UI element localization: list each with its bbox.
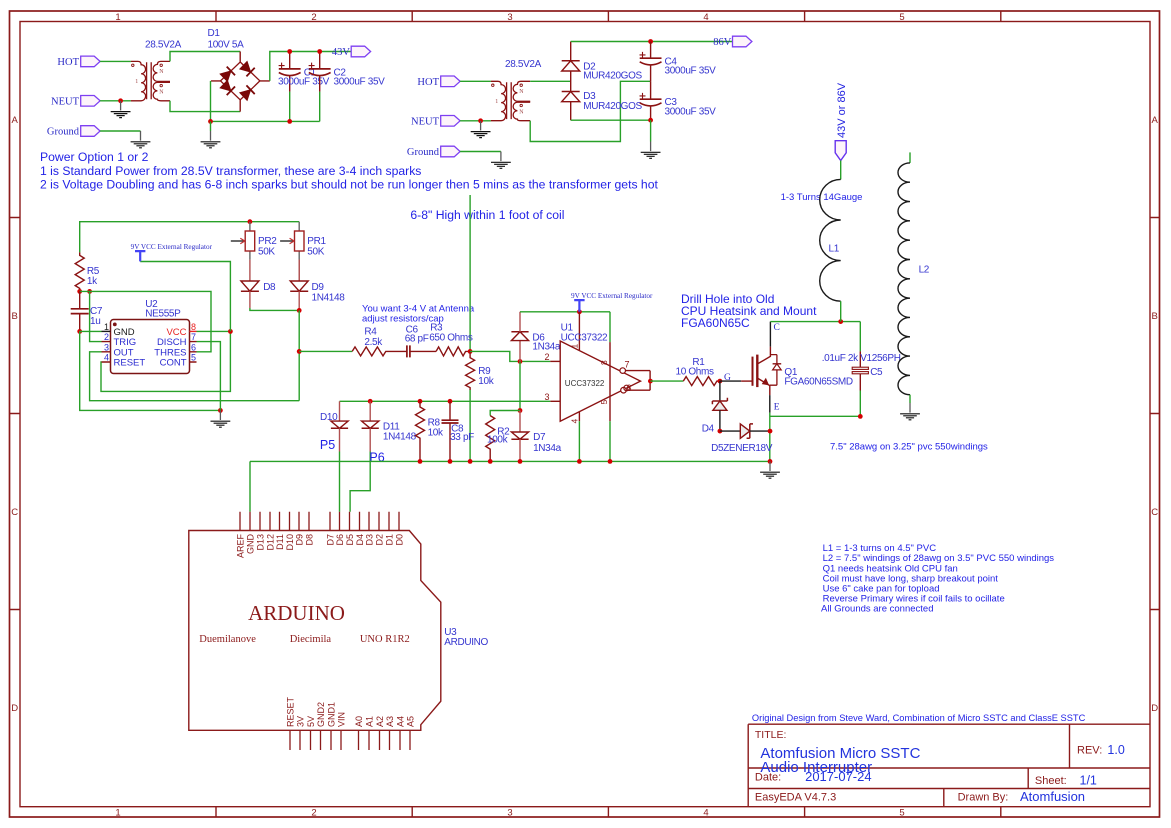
U1 rotated pin numbers [570, 344, 610, 424]
resistor R2 [486, 416, 495, 462]
wire P6 to arduino D5 [350, 452, 370, 512]
wire bridge + output to 43V [270, 52, 351, 81]
svg-text:A2: A2 [375, 716, 385, 727]
resistor R9 [466, 351, 475, 390]
node 555 ground [218, 408, 223, 413]
node C8 top [448, 399, 453, 404]
U3 bottom pin labels [285, 696, 415, 727]
node NEUT2 junction [478, 118, 483, 123]
node C7 bottom / GND pin [77, 329, 82, 334]
node G [718, 379, 723, 384]
svg-text:1N34a: 1N34a [533, 443, 562, 454]
svg-text:D9: D9 [312, 282, 325, 293]
U1 pin8/5 line [609, 312, 611, 342]
svg-text:4: 4 [703, 12, 708, 23]
wire L2 bottom [909, 395, 911, 403]
svg-text:3: 3 [507, 808, 512, 819]
node R2/D7 [518, 408, 523, 413]
resistor R1 [683, 377, 720, 386]
title block lines [748, 724, 1150, 807]
svg-text:A4: A4 [395, 716, 405, 727]
wire HOT to transformer primary [100, 60, 131, 62]
port 86V [713, 36, 752, 48]
wire bus to arduino GND [249, 461, 251, 511]
inductor L1 [820, 179, 841, 301]
node bus R2 [488, 459, 493, 464]
capacitor C7 [71, 291, 89, 331]
wire D8 bottom [249, 291, 251, 308]
svg-text:D1: D1 [384, 534, 394, 546]
svg-text:D5ZENER18V: D5ZENER18V [711, 443, 773, 454]
frame bottom ruler ticks [216, 807, 1001, 817]
wire bottom bus 2 [571, 119, 651, 121]
svg-text:D12: D12 [265, 534, 275, 551]
IC U2 NE555P box [111, 320, 190, 374]
wire collector to rail [769, 322, 771, 347]
svg-text:2: 2 [311, 12, 316, 23]
ground (below Ground port 1) [131, 131, 151, 148]
svg-text:4: 4 [104, 353, 109, 363]
svg-text:100k: 100k [487, 435, 509, 446]
svg-text:6: 6 [627, 383, 632, 393]
node D4 bottom [718, 429, 723, 434]
svg-text:1: 1 [115, 12, 120, 23]
diode D10 [331, 401, 348, 451]
wire DISCH to ground [197, 342, 221, 411]
svg-text:P5: P5 [320, 438, 335, 452]
frame row letters right [1151, 115, 1158, 714]
svg-text:1N4148: 1N4148 [312, 292, 346, 303]
capacitor C3 [640, 81, 662, 120]
transformer T2 polarity dots [492, 84, 494, 86]
svg-text:PR1: PR1 [307, 236, 326, 247]
svg-text:3: 3 [544, 392, 549, 402]
U1 pin2 stub [550, 360, 560, 362]
node R5 bottom [77, 289, 82, 294]
svg-text:GND2: GND2 [316, 702, 326, 727]
ground (NEUT 2) [471, 121, 491, 138]
U2 pin lines right [190, 330, 197, 332]
svg-text:3: 3 [507, 12, 512, 23]
svg-text:D4: D4 [355, 534, 365, 546]
svg-text:9V VCC External Regulator: 9V VCC External Regulator [131, 243, 213, 251]
wire D9/D8 node down to R4 node [298, 310, 300, 400]
ground (below Ground port 2) [491, 152, 511, 169]
wire L1 bottom to rail [840, 301, 842, 321]
svg-text:10k: 10k [428, 428, 444, 439]
svg-text:D10: D10 [320, 412, 338, 423]
port flag 43V or 86V [835, 82, 848, 160]
svg-text:D0: D0 [394, 534, 404, 546]
port NEUT (1) [51, 96, 100, 108]
svg-text:3000uF 35V: 3000uF 35V [278, 77, 330, 88]
svg-text:EasyEDA V4.7.3: EasyEDA V4.7.3 [755, 792, 836, 804]
zener D5ZENER18V [720, 424, 770, 438]
svg-text:D4: D4 [702, 423, 715, 434]
svg-text:D6: D6 [335, 534, 345, 546]
wire OUT loop [90, 352, 300, 401]
svg-text:6: 6 [191, 342, 196, 352]
U3 bottom pin stubs [290, 730, 410, 750]
svg-text:C5: C5 [870, 367, 883, 378]
resistor R5 [75, 252, 84, 291]
wire top rail R5/PR1/PR2 [80, 222, 300, 253]
svg-text:AREF: AREF [235, 534, 245, 559]
U1 pin3 stub [550, 400, 560, 402]
IC U1 UCC37322 triangle [560, 341, 640, 421]
ground (bridge 1) [201, 131, 221, 148]
diode D9 [290, 260, 308, 311]
U2 pin numbers [104, 322, 196, 363]
svg-text:N: N [519, 109, 524, 115]
svg-text:D8: D8 [263, 282, 276, 293]
svg-text:B: B [12, 311, 18, 322]
svg-text:2: 2 [104, 332, 109, 342]
wire C6 to R3 [410, 350, 436, 352]
svg-text:Ground: Ground [407, 147, 440, 158]
node D6 bottom [518, 359, 523, 364]
frame row letters left [11, 115, 18, 714]
svg-text:D3: D3 [364, 534, 374, 546]
wire TRIG loop [90, 291, 102, 341]
svg-text:1: 1 [495, 99, 498, 105]
svg-text:6-8" High within 1 foot of coi: 6-8" High within 1 foot of coil [410, 208, 564, 222]
node bus R8 [418, 459, 423, 464]
bridge D1 diode bottom-right [239, 85, 254, 100]
diode bridge D1 outline [221, 62, 260, 100]
U2 pin lines left [102, 330, 111, 332]
frame right ruler ticks [1150, 218, 1160, 610]
frame column numbers bottom [115, 808, 904, 819]
svg-text:1: 1 [135, 79, 138, 85]
wire C3 bottom to ground [650, 120, 652, 141]
svg-text:NEUT: NEUT [411, 116, 440, 127]
svg-text:10 Ohms: 10 Ohms [676, 366, 714, 377]
svg-text:1N4148: 1N4148 [383, 431, 417, 442]
node VCC [228, 329, 233, 334]
node bridge ground junction [208, 119, 213, 124]
ground (L2) [900, 403, 920, 420]
wire antenna [469, 195, 471, 351]
svg-text:3: 3 [104, 342, 109, 352]
svg-text:ARDUINO: ARDUINO [444, 637, 488, 648]
port 43V [332, 46, 371, 58]
svg-text:GND: GND [245, 534, 255, 555]
capacitor C6 [407, 345, 410, 357]
svg-text:1: 1 [115, 808, 120, 819]
wire P5 to arduino D6 [339, 452, 341, 512]
transformer T1 secondary winding 2 [153, 82, 170, 101]
node bus D7 [518, 459, 523, 464]
port NEUT (2) [411, 116, 460, 128]
potentiometer PR2 [231, 222, 255, 281]
U1 output bubbles [620, 368, 626, 374]
svg-text:A0: A0 [354, 716, 364, 727]
capacitor C1 [279, 52, 301, 92]
node C5 bottom [858, 414, 863, 419]
wire RESET loop [101, 331, 230, 391]
svg-text:VIN: VIN [336, 712, 346, 727]
resistor R4 [352, 347, 407, 356]
bridge D1 diode top-right [239, 61, 254, 76]
resistor R3 [436, 347, 470, 356]
diode D2 [562, 42, 580, 92]
svg-text:2 is Voltage Doubling and has: 2 is Voltage Doubling and has 6-8 inch s… [40, 177, 658, 191]
svg-text:8: 8 [599, 360, 609, 365]
node C1 top [287, 49, 292, 54]
wire top bus to 86V [571, 41, 733, 43]
svg-text:D2: D2 [374, 534, 384, 546]
node OUT/R4 junction [297, 349, 302, 354]
svg-text:Sheet:: Sheet: [1035, 775, 1067, 787]
svg-text:100V 5A: 100V 5A [208, 40, 245, 51]
node TRIG branch [87, 289, 92, 294]
svg-text:RESET: RESET [114, 358, 146, 369]
node bus U1 pin4 [577, 459, 582, 464]
wire emitter down [769, 395, 771, 413]
svg-text:D10: D10 [285, 534, 295, 551]
wire top rail L1/Q1/C5 [770, 321, 860, 323]
wire to R2 [490, 411, 520, 416]
svg-text:8: 8 [191, 322, 196, 332]
resistor R8 [416, 401, 425, 461]
svg-text:A: A [1152, 115, 1159, 126]
wire Ground2 port to ground [460, 151, 501, 153]
wire bridge - to ground bus [210, 81, 212, 122]
svg-text:1u: 1u [90, 316, 100, 327]
svg-text:A: A [12, 115, 19, 126]
svg-text:D8: D8 [304, 534, 314, 546]
svg-text:.01uF 2k V1256PH: .01uF 2k V1256PH [822, 353, 901, 364]
svg-text:5: 5 [899, 12, 904, 23]
svg-text:A5: A5 [405, 716, 415, 727]
svg-text:28.5V2A: 28.5V2A [505, 59, 542, 70]
svg-text:C: C [774, 323, 780, 333]
svg-text:D13: D13 [255, 534, 265, 551]
node U1 VDD [577, 309, 582, 314]
wire OUT node to R4 [299, 350, 352, 352]
svg-text:2: 2 [544, 352, 549, 362]
svg-text:Diecimila: Diecimila [290, 634, 332, 645]
diode D6 [511, 312, 528, 362]
netflag 9V VCC External Regulator (1) [131, 243, 213, 261]
wire U1 out to R1 [650, 380, 683, 382]
svg-text:N: N [159, 89, 164, 95]
node zener/emitter [768, 429, 773, 434]
svg-text:4: 4 [703, 808, 708, 819]
svg-text:Date:: Date: [755, 771, 781, 783]
svg-text:D9: D9 [294, 534, 304, 546]
wire GND bus of 555 [80, 331, 221, 410]
svg-text:GND1: GND1 [326, 702, 336, 727]
ground (555) [211, 410, 231, 427]
wire HOT2 to transformer [460, 80, 491, 82]
svg-text:HOT: HOT [417, 77, 439, 88]
svg-text:2.5k: 2.5k [364, 337, 383, 348]
node R8 top [418, 399, 423, 404]
svg-text:5V: 5V [306, 716, 316, 727]
transformer T1 28.5V2A primary [131, 61, 146, 100]
wire Ground port to ground [100, 130, 140, 132]
svg-text:7.5" 28awg on 3.25" pvc 550win: 7.5" 28awg on 3.25" pvc 550windings [830, 442, 988, 453]
svg-text:Original Design from Steve War: Original Design from Steve Ward, Combina… [752, 713, 1086, 723]
svg-text:1: 1 [104, 322, 109, 332]
inductor L2 [909, 152, 911, 163]
svg-text:50K: 50K [307, 246, 324, 257]
bridge D1 pin stubs [211, 52, 270, 112]
U2 pin names [114, 327, 187, 369]
svg-text:43V or 86V: 43V or 86V [836, 82, 848, 138]
svg-text:1-3 Turns 14Gauge: 1-3 Turns 14Gauge [781, 192, 863, 203]
wire NEUT2 to transformer [460, 120, 491, 122]
wire 9V flag 1 to VCC [140, 262, 230, 332]
zener D4 [712, 381, 727, 431]
ground (NEUT 1) [111, 101, 131, 118]
node U1 output [648, 379, 653, 384]
svg-text:UNO R1R2: UNO R1R2 [360, 634, 410, 645]
svg-text:L1: L1 [829, 244, 840, 255]
svg-text:UCC37322: UCC37322 [565, 379, 605, 388]
U1 pin4 line [578, 412, 580, 422]
svg-text:D7: D7 [325, 534, 335, 546]
diode D11 [362, 401, 379, 451]
IC U3 ARDUINO body [189, 531, 441, 731]
svg-text:D5: D5 [345, 534, 355, 546]
svg-text:1k: 1k [87, 276, 98, 287]
wire T1 secondary top to bridge [170, 52, 240, 62]
netflag 9V VCC External Regulator (2) [571, 292, 653, 312]
port Ground (2) [407, 146, 460, 158]
svg-text:4: 4 [570, 419, 580, 424]
wire T2 secondary top to D2/D3 [530, 80, 571, 82]
wire T1 secondary bottom to bridge [170, 101, 240, 112]
svg-text:C: C [11, 507, 18, 518]
svg-text:Power Option 1 or 2: Power Option 1 or 2 [40, 150, 149, 164]
svg-text:N: N [159, 69, 164, 75]
svg-text:CONT: CONT [160, 358, 187, 369]
svg-text:Atomfusion: Atomfusion [1020, 789, 1085, 804]
svg-text:3000uF 35V: 3000uF 35V [665, 107, 717, 118]
node bus U1 pin5 [608, 459, 613, 464]
node C1 bottom [287, 119, 292, 124]
svg-text:33 pF: 33 pF [450, 432, 474, 443]
frame left ruler ticks [10, 218, 21, 610]
U1 pin1 line [578, 312, 580, 350]
transformer T2 secondary winding 1 [513, 81, 530, 101]
node PR2 top [248, 219, 253, 224]
U1 output bracket pins 6/7 [626, 371, 651, 391]
svg-text:TITLE:: TITLE: [755, 729, 787, 741]
svg-text:68 pF: 68 pF [405, 333, 429, 344]
diode D3 [562, 92, 580, 121]
node NEUT junction [118, 98, 123, 103]
svg-text:E: E [774, 402, 780, 412]
transformer T1 core [147, 62, 152, 99]
wire VCC pin to node [197, 330, 231, 332]
port HOT (2) [417, 76, 460, 88]
svg-text:28.5V2A: 28.5V2A [145, 40, 182, 51]
transformer T2 28.5V2A primary [491, 81, 506, 120]
node bus R9 [468, 459, 473, 464]
svg-text:D: D [1151, 703, 1158, 714]
svg-text:43V: 43V [332, 47, 351, 58]
svg-text:All Grounds are connected: All Grounds are connected [821, 604, 933, 615]
svg-text:1 is Standard Power from 28.5V: 1 is Standard Power from 28.5V transform… [40, 164, 421, 178]
wire THRES node [80, 291, 211, 351]
node C3 bottom [648, 118, 653, 123]
svg-text:Duemilanove: Duemilanove [199, 634, 256, 645]
wire emitter rail to C5 [770, 415, 861, 417]
wire ground stub (bridge) [210, 121, 212, 131]
svg-text:D1: D1 [208, 28, 221, 39]
wire R3 node to U1 pin2 [470, 351, 550, 361]
transformer T1 polarity dots [132, 64, 134, 66]
wire U1 pin3 bus [340, 400, 551, 402]
wire D6 node down to R2/D7 [519, 361, 521, 410]
node D9 bottom [297, 308, 302, 313]
U2 pin1 marker dot [113, 323, 117, 327]
node R3/R9/antenna [468, 349, 473, 354]
node bus C8 [448, 459, 453, 464]
bridge D1 diode top-left [220, 67, 235, 82]
node C4 top [648, 39, 653, 44]
svg-text:L2: L2 [919, 264, 930, 275]
svg-text:N: N [519, 89, 524, 95]
svg-text:UCC37322: UCC37322 [561, 333, 608, 344]
wire T2 secondary bottom loop to C3/C4 junction [530, 81, 650, 141]
svg-text:Ground: Ground [47, 127, 80, 138]
svg-text:5: 5 [191, 353, 196, 363]
svg-text:FGA60N65C: FGA60N65C [681, 316, 750, 330]
svg-text:3000uF 35V: 3000uF 35V [665, 66, 717, 77]
svg-text:650 Ohms: 650 Ohms [429, 333, 473, 344]
wire main ground bus [250, 460, 770, 462]
svg-text:NE555P: NE555P [145, 309, 181, 320]
svg-text:B: B [1152, 311, 1158, 322]
potentiometer PR1 [280, 222, 304, 281]
port Ground (1) [47, 126, 100, 138]
svg-text:5: 5 [899, 808, 904, 819]
svg-text:86V: 86V [713, 37, 732, 48]
capacitor C2 [309, 52, 331, 92]
ground (doubler) [641, 142, 661, 159]
wire C2 bottom [319, 92, 321, 122]
U3 top pin labels [235, 534, 404, 559]
svg-text:1: 1 [570, 344, 580, 349]
Q1 emitter arrow [762, 379, 768, 385]
svg-text:2: 2 [311, 808, 316, 819]
svg-text:7: 7 [625, 360, 630, 370]
wire 9V rail 2 [520, 311, 610, 313]
capacitor C8 [442, 401, 459, 461]
svg-text:MUR420GOS: MUR420GOS [583, 101, 642, 112]
svg-text:REV:: REV: [1077, 745, 1102, 757]
capacitor C4 [640, 42, 662, 82]
node C2 top [317, 49, 322, 54]
svg-text:A1: A1 [364, 716, 374, 727]
ground (Q1 emitter) [760, 461, 780, 478]
wire ground bus 1 [211, 120, 320, 122]
svg-text:A3: A3 [385, 716, 395, 727]
svg-text:3000uF 35V: 3000uF 35V [334, 77, 386, 88]
U3 top pin stubs [240, 512, 399, 531]
wire R9 bottom to bus [469, 390, 471, 461]
svg-text:50K: 50K [258, 246, 275, 257]
svg-text:9V VCC External Regulator: 9V VCC External Regulator [571, 292, 653, 300]
svg-text:3V: 3V [295, 716, 305, 727]
svg-text:D7: D7 [533, 432, 546, 443]
wire C1 bottom [289, 92, 291, 122]
